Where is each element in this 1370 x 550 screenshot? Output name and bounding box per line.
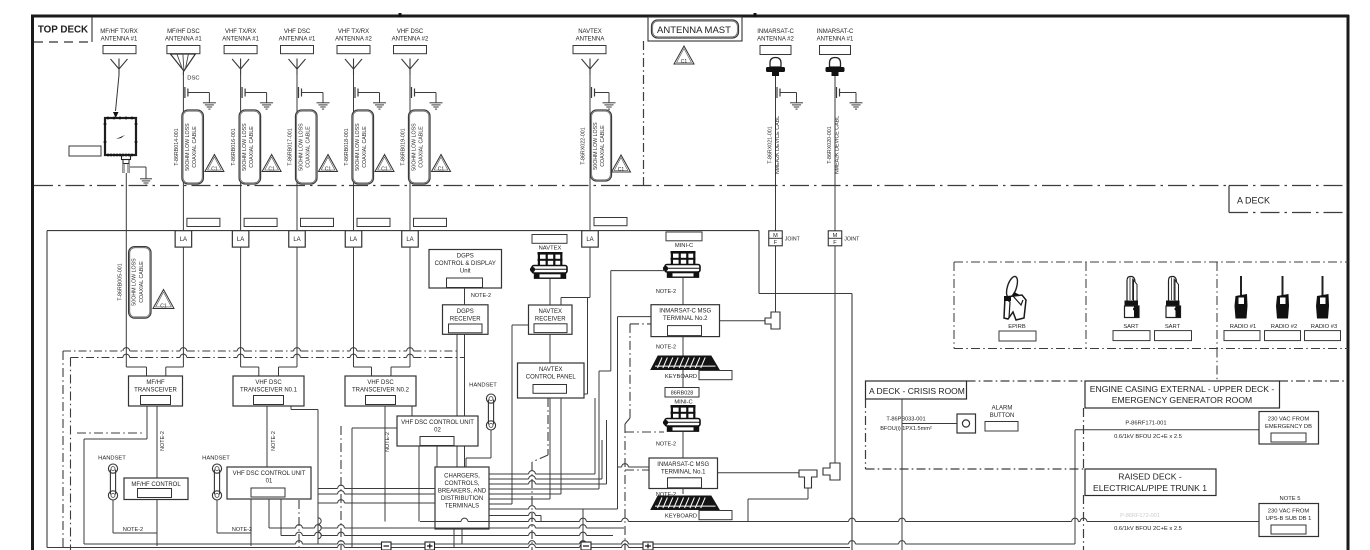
svg-text:BREAKERS, AND: BREAKERS, AND — [438, 489, 487, 495]
svg-text:CHARGERS,: CHARGERS, — [444, 474, 480, 480]
svg-text:DISTRIBUTION: DISTRIBUTION — [441, 496, 483, 502]
ups feeder label — [1114, 526, 1182, 532]
svg-text:C1: C1 — [211, 166, 218, 172]
svg-text:T-86RX022-001: T-86RX022-001 — [581, 127, 587, 164]
HANDSET 3 label — [469, 383, 497, 389]
M/F joint INMARSAT #1 — [828, 231, 860, 246]
svg-text:ANTENNA #1: ANTENNA #1 — [279, 37, 316, 43]
svg-text:VHF DSC CONTROL UNIT: VHF DSC CONTROL UNIT — [233, 471, 306, 477]
wire receiver to panel — [549, 334, 551, 363]
antenna MF/HF DSC funnel — [170, 54, 199, 82]
svg-text:INMARSAT-C MSG: INMARSAT-C MSG — [659, 309, 711, 315]
handset 3 — [486, 394, 495, 430]
MINI-C label 2 — [674, 400, 692, 406]
VHF DSC TRANSCEIVER NO.1 — [233, 376, 304, 406]
coaxial cable label col 5 — [344, 110, 374, 184]
svg-text:VHF DSC: VHF DSC — [367, 380, 394, 386]
svg-text:A DECK - CRISIS ROOM: A DECK - CRISIS ROOM — [869, 386, 965, 396]
deck boundary TOP DECK / A DECK — [34, 185, 1229, 187]
RADIO icon 3 — [1316, 276, 1329, 319]
svg-text:T-86PB033-001: T-86PB033-001 — [886, 417, 925, 423]
NOTE-2 label handset2 — [232, 527, 252, 533]
wire chargers bottom b — [461, 529, 463, 544]
svg-text:VHF TX/RX: VHF TX/RX — [225, 29, 256, 35]
wire terminal1 down — [682, 488, 684, 494]
svg-text:LA: LA — [180, 237, 187, 243]
coaxial cable label col 1 — [117, 247, 151, 319]
INMARSAT-C MSG TERMINAL No.2 — [651, 305, 720, 337]
NAVTEX receiver device icon — [530, 252, 567, 278]
wire mini-c 1 down — [682, 278, 684, 305]
svg-text:KEYBOARD: KEYBOARD — [665, 374, 697, 380]
warning triangle C1 col 2 — [205, 154, 224, 172]
lightning arrestor LA col 6 — [402, 231, 419, 248]
svg-text:RADIO #1: RADIO #1 — [1230, 324, 1256, 330]
wire col2 to MF/HF transceiver — [166, 348, 184, 376]
wire antenna col 2 down — [182, 72, 184, 231]
svg-text:T-86RB016-001: T-86RB016-001 — [231, 128, 237, 165]
svg-text:COAXIAL CABLE: COAXIAL CABLE — [192, 126, 198, 168]
emergency feeder label — [1114, 421, 1182, 441]
feedthrough capacitor + ground col 2 — [185, 87, 216, 109]
NAVTEX CONTROL PANEL box — [518, 363, 585, 398]
feedthrough capacitor + ground INMARSAT #2 — [777, 87, 803, 109]
VHF DSC TRANSCEIVER NO.2 — [345, 376, 416, 406]
label rect above bus NAVTEX — [594, 218, 627, 226]
svg-text:ENGINE CASING EXTERNAL - UPPER: ENGINE CASING EXTERNAL - UPPER DECK - — [1090, 384, 1275, 394]
svg-text:MF/HF TX/RX: MF/HF TX/RX — [100, 29, 138, 35]
svg-text:TERMINALS: TERMINALS — [445, 504, 479, 510]
svg-text:MF/HF CONTROL: MF/HF CONTROL — [131, 482, 181, 488]
TOP DECK label — [34, 17, 92, 42]
svg-text:INMARSAT-C: INMARSAT-C — [817, 29, 854, 35]
bottom bus 1 / ups feeder — [420, 518, 1259, 521]
svg-text:F: F — [774, 240, 778, 246]
ATU side label rect — [69, 146, 101, 156]
svg-text:NOTE-2: NOTE-2 — [232, 527, 252, 533]
A DECK - CRISIS ROOM title box — [866, 381, 967, 399]
alarm cable label — [880, 417, 932, 432]
wire right rail 902 — [901, 399, 903, 550]
MF/HF CONTROL — [124, 478, 188, 500]
svg-text:NAVTEX: NAVTEX — [539, 246, 562, 252]
feedthrough capacitor + ground INMARSAT #1 — [837, 87, 863, 109]
svg-text:50OHM LOW LOSS: 50OHM LOW LOSS — [185, 123, 191, 171]
MINI-C device label rect — [666, 232, 702, 241]
svg-text:C1: C1 — [381, 166, 388, 172]
compartment dash-dot rail E — [532, 398, 548, 550]
wire DGPS receiver down 2 — [464, 334, 466, 528]
svg-text:INMARSAT-C: INMARSAT-C — [757, 29, 794, 35]
svg-text:TRANSCEIVER N0.1: TRANSCEIVER N0.1 — [240, 388, 298, 394]
svg-text:ANTENNA #2: ANTENNA #2 — [335, 37, 372, 43]
ALARM BUTTON label — [990, 406, 1015, 420]
svg-text:P-86RF171-001: P-86RF171-001 — [1125, 421, 1166, 427]
antenna label placeholder rect col 3 — [224, 46, 257, 54]
junction box bottom 4 — [643, 542, 653, 550]
svg-text:T-86RX021-001: T-86RX021-001 — [768, 126, 774, 163]
wire chargers bottom a — [453, 529, 455, 548]
antenna label placeholder rect col 4 — [281, 46, 314, 54]
wire antenna col 5 down — [353, 75, 355, 231]
svg-text:NOTE-2: NOTE-2 — [123, 527, 143, 533]
compartment dash-dot stub terminal1 — [625, 469, 649, 471]
svg-text:50OHM LOW LOSS: 50OHM LOW LOSS — [132, 258, 138, 306]
handset 1 — [108, 464, 117, 500]
svg-text:DGPS: DGPS — [457, 309, 474, 315]
svg-text:NAVTEX: NAVTEX — [539, 367, 563, 373]
warning triangle C1 col 4 — [319, 154, 338, 172]
svg-text:0.6/1kV BFOU 2C+E x 2.5: 0.6/1kV BFOU 2C+E x 2.5 — [1114, 434, 1182, 440]
antenna label placeholder rect INMARSAT #1 — [820, 46, 851, 55]
wire terminal2 left — [618, 317, 652, 509]
svg-text:NOTE-2: NOTE-2 — [385, 432, 391, 452]
svg-text:ANTENNA #2: ANTENNA #2 — [757, 37, 794, 43]
compartment boundary bus 1 — [63, 348, 457, 351]
svg-text:M: M — [773, 233, 778, 239]
equipment room top line — [47, 231, 852, 550]
antenna label VHF DSC ANTENNA #2 — [392, 29, 429, 43]
NOTE-2 terminal1 a — [656, 442, 676, 448]
lightning arrestor LA col 3 — [232, 231, 249, 248]
RADIO label rects — [1224, 331, 1341, 341]
wire LA down col 5 — [353, 247, 355, 348]
svg-text:NOTE-2: NOTE-2 — [656, 345, 676, 351]
svg-text:RADIO #2: RADIO #2 — [1271, 324, 1297, 330]
EPIRB label — [1008, 324, 1026, 330]
svg-text:LA: LA — [237, 237, 244, 243]
svg-text:HANDSET: HANDSET — [469, 383, 497, 389]
wire handset3 to chargers — [466, 430, 491, 467]
svg-text:UPS-B SUB DB 1: UPS-B SUB DB 1 — [1266, 516, 1312, 522]
svg-text:C1: C1 — [160, 303, 167, 309]
plug connector INMARSAT #1 — [823, 463, 840, 480]
M/F joint INMARSAT #2 — [769, 231, 801, 246]
svg-text:ANTENNA MAST: ANTENNA MAST — [657, 25, 731, 36]
svg-text:M: M — [833, 233, 838, 239]
compartment boundary bus 2 — [71, 354, 465, 357]
wire mini-c 2 down — [682, 432, 684, 458]
wire emergency db — [1075, 430, 1259, 544]
keyboard icon 1 — [651, 356, 719, 370]
wire NAVTEX antenna down — [589, 75, 591, 231]
SART label 2 — [1165, 324, 1181, 330]
svg-text:NOTE-2: NOTE-2 — [656, 442, 676, 448]
bottom bus 4 (emergency feeder) — [84, 541, 1075, 544]
svg-text:50OHM LOW LOSS: 50OHM LOW LOSS — [355, 123, 361, 171]
wire col3 to VHF transceiver1 — [241, 348, 259, 376]
chargers left stubs — [318, 485, 435, 503]
feedthrough capacitor + ground col 3 — [242, 87, 273, 109]
wire terminal No.2 to plug — [720, 320, 766, 322]
ANTENNA MAST label box — [648, 17, 742, 41]
antenna label placeholder rect col 2 — [167, 46, 200, 54]
antenna label placeholder rect col 5 — [337, 46, 370, 54]
keyboard icon 2 — [651, 496, 719, 510]
svg-text:NMEA2K DEVICE CABL: NMEA2K DEVICE CABL — [775, 116, 781, 174]
KEYBOARD label 1 — [665, 371, 732, 381]
INMARSAT-C MSG TERMINAL No.1 — [649, 458, 718, 489]
svg-text:Unit: Unit — [460, 269, 471, 275]
SART label rect 2 — [1155, 331, 1192, 341]
chargers fan wire 1 — [489, 398, 595, 474]
junction box bottom 2 — [425, 542, 435, 550]
feedthrough capacitor + ground col 6 — [412, 87, 443, 109]
CHARGERS CONTROLS BREAKERS box — [435, 467, 489, 529]
wire col6 to VHF transceiver2 — [391, 348, 410, 376]
antenna dome INMARSAT #1 — [826, 58, 845, 77]
antenna dome INMARSAT #2 — [766, 58, 785, 77]
wire transceiver1 left loop — [84, 406, 147, 544]
svg-text:EPIRB: EPIRB — [1008, 324, 1026, 330]
coaxial cable label NAVTEX — [581, 110, 612, 181]
wire fan vertical 583 — [582, 509, 584, 550]
svg-text:86RB028: 86RB028 — [671, 391, 693, 397]
vertical hop bumps 318 — [318, 518, 321, 539]
feedthrough capacitor + ground col 5 — [355, 87, 386, 109]
svg-text:T-86RB014-001: T-86RB014-001 — [174, 128, 180, 165]
svg-text:COAXIAL CABLE: COAXIAL CABLE — [306, 126, 312, 168]
svg-text:RECEIVER: RECEIVER — [535, 317, 566, 323]
svg-text:VHF TX/RX: VHF TX/RX — [338, 29, 369, 35]
wire terminal2 to keyboard — [682, 337, 684, 356]
wire T connector join bus — [0, 0, 1, 1]
svg-text:230 VAC FROM: 230 VAC FROM — [1268, 417, 1310, 423]
svg-text:INMARSAT-C MSG: INMARSAT-C MSG — [657, 462, 709, 468]
wire receiver left rail — [489, 325, 529, 504]
svg-text:P-86RF172-001: P-86RF172-001 — [1120, 513, 1160, 519]
label rect above bus col 4 — [301, 218, 334, 226]
compartment dash-dot rail F — [625, 324, 651, 550]
wire LA down col 6 — [409, 247, 411, 348]
svg-text:T-86RB017-001: T-86RB017-001 — [288, 128, 294, 165]
svg-text:ELECTRICAL/PIPE TRUNK 1: ELECTRICAL/PIPE TRUNK 1 — [1093, 483, 1207, 493]
svg-text:50OHM LOW LOSS: 50OHM LOW LOSS — [593, 122, 599, 170]
antenna tuner unit (ATU) — [104, 117, 138, 157]
SART label rect 1 — [1113, 331, 1150, 341]
svg-text:MF/HF DSC: MF/HF DSC — [167, 29, 200, 35]
NOTE 5 label — [1280, 496, 1301, 502]
230 VAC FROM UPS-B SUB DB 1 box — [1259, 504, 1319, 537]
antenna whip NAVTEX — [582, 59, 599, 76]
compartment dash-dot rail D — [298, 500, 300, 550]
wire INMARSAT #2 down — [775, 76, 777, 231]
NOTE-2 rotated vhf control 01 — [271, 431, 277, 451]
ATU ground — [130, 167, 152, 185]
MINI-C device icon 1 — [663, 251, 700, 277]
svg-text:NMEA2K DEVICE CABL: NMEA2K DEVICE CABL — [835, 116, 841, 174]
wire INMARSAT #1 down — [834, 76, 836, 231]
wire mini-c left — [489, 271, 665, 489]
wire INMARSAT #1 joint down — [834, 246, 836, 463]
wire DGPS display to receiver — [464, 288, 466, 305]
antenna label INMARSAT-C ANTENNA #2 — [757, 29, 794, 43]
A DECK label box — [1229, 186, 1348, 213]
svg-text:EMERGENCY DB: EMERGENCY DB — [1265, 424, 1312, 430]
NAVTEX device label rect — [532, 235, 567, 244]
SART icon 2 — [1166, 277, 1181, 318]
survival craft equipment dash-dot box — [954, 262, 1348, 381]
antenna whip col 4 — [289, 59, 306, 76]
svg-text:TERMINAL No.2: TERMINAL No.2 — [663, 316, 708, 322]
lightning arrestor LA col 5 — [345, 231, 362, 248]
svg-text:T-86RB005-001: T-86RB005-001 — [117, 263, 123, 300]
230 VAC FROM EMERGENCY DB box — [1259, 412, 1319, 445]
svg-text:ANTENNA #1: ANTENNA #1 — [101, 37, 138, 43]
chargers fan wire 5 — [489, 512, 541, 521]
wire antenna col 3 down — [240, 75, 242, 231]
T connector terminal No.1 — [799, 470, 817, 488]
engine room dash-dot boundary — [1083, 408, 1085, 550]
warning triangle C1 col 6 — [432, 154, 451, 172]
svg-text:TRANSCEIVER: TRANSCEIVER — [134, 388, 177, 394]
antenna label placeholder rect col 6 — [394, 46, 427, 54]
wire panel down b — [489, 398, 561, 494]
NOTE-2 label DGPS — [471, 293, 491, 299]
NOTE-2 label handset1 — [123, 527, 143, 533]
svg-text:RECEIVER: RECEIVER — [450, 316, 481, 322]
NOTE-2 terminal1 b — [656, 492, 676, 498]
wire to alarm button — [902, 423, 957, 425]
wire antenna col 6 down — [409, 75, 411, 231]
RAISED DECK title box — [1085, 469, 1216, 496]
svg-text:VHF DSC: VHF DSC — [255, 380, 282, 386]
svg-text:VHF DSC: VHF DSC — [284, 29, 311, 35]
svg-text:SART: SART — [1123, 324, 1139, 330]
lightning arrestor LA col 2 — [175, 231, 192, 248]
feedthrough capacitor + ground NAVTEX — [592, 87, 616, 109]
chargers fan wire 3 — [489, 420, 607, 484]
svg-text:F: F — [833, 240, 837, 246]
wire transceiver1 to control — [156, 406, 158, 478]
wire antenna col 4 down — [296, 75, 298, 231]
device cable label INMARSAT #2 — [768, 116, 782, 174]
svg-text:EMERGENCY GENERATOR ROOM: EMERGENCY GENERATOR ROOM — [1112, 395, 1252, 405]
svg-text:NAVTEX: NAVTEX — [578, 29, 602, 35]
svg-text:NOTE-2: NOTE-2 — [160, 431, 166, 451]
wire transceiver2 right loop — [291, 406, 318, 544]
svg-text:COAXIAL CABLE: COAXIAL CABLE — [362, 126, 368, 168]
NOTE-2 terminal2 b — [656, 345, 676, 351]
svg-text:01: 01 — [266, 479, 273, 485]
label rect above bus col 3 — [244, 218, 277, 226]
bottom bus 2 — [269, 525, 624, 528]
warning triangle C1 col 1 — [153, 290, 174, 310]
svg-text:T-86RX020-001: T-86RX020-001 — [827, 126, 833, 163]
antenna label placeholder rect NAVTEX — [573, 46, 606, 54]
wire transceiver3 to control 02 — [411, 406, 413, 416]
svg-text:VHF DSC CONTROL UNIT: VHF DSC CONTROL UNIT — [401, 420, 474, 426]
label rect above bus col 5 — [357, 218, 390, 226]
lightning arrestor LA NAVTEX — [582, 231, 599, 248]
device cable label INMARSAT #1 — [827, 116, 841, 174]
wire panel down a — [489, 398, 550, 499]
NOTE-2 terminal2 a — [656, 289, 676, 295]
svg-text:MINI-C: MINI-C — [674, 400, 692, 406]
ATU bottom connector — [122, 155, 131, 173]
antenna label NAVTEX ANTENNA — [576, 29, 605, 43]
antenna label MF/HF DSC ANTENNA #1 — [165, 29, 202, 43]
compartment dash-dot rail C — [340, 426, 342, 550]
svg-text:RAISED DECK -: RAISED DECK - — [1118, 472, 1182, 482]
svg-text:50OHM LOW LOSS: 50OHM LOW LOSS — [299, 123, 305, 171]
svg-text:A DECK: A DECK — [1237, 196, 1270, 206]
wire col4 to VHF transceiver1 — [279, 348, 298, 376]
svg-text:BUTTON: BUTTON — [990, 413, 1015, 419]
svg-text:NOTE-2: NOTE-2 — [656, 289, 676, 295]
svg-text:ANTENNA #1: ANTENNA #1 — [817, 37, 854, 43]
wire control02 left loop — [352, 428, 397, 548]
svg-text:C1: C1 — [268, 166, 275, 172]
wire keyboard1 to 86RB028 — [682, 370, 684, 388]
svg-text:LA: LA — [406, 237, 413, 243]
wire INMARSAT #2 joint to plug — [775, 246, 777, 312]
EPIRB label rect — [999, 331, 1036, 341]
MF/HF TRANSCEIVER — [129, 376, 183, 406]
svg-text:COAXIAL CABLE: COAXIAL CABLE — [600, 125, 606, 167]
svg-text:LA: LA — [293, 237, 300, 243]
svg-text:CONTROL PANEL: CONTROL PANEL — [526, 375, 577, 381]
compartment dash-dot rail A — [62, 351, 64, 550]
svg-text:ANTENNA #2: ANTENNA #2 — [392, 37, 429, 43]
wire LA navtex to receiver — [561, 247, 590, 305]
svg-text:JOINT: JOINT — [844, 236, 860, 242]
svg-text:DSC: DSC — [187, 76, 199, 82]
RADIO icon 2 — [1276, 276, 1289, 319]
svg-text:50OHM LOW LOSS: 50OHM LOW LOSS — [242, 123, 248, 171]
svg-text:TOP DECK: TOP DECK — [38, 25, 88, 36]
svg-text:JOINT: JOINT — [785, 236, 801, 242]
svg-text:CONTROL & DISPLAY: CONTROL & DISPLAY — [435, 261, 496, 267]
svg-text:TRANSCEIVER N0.2: TRANSCEIVER N0.2 — [352, 388, 410, 394]
antenna label MF/HF TX/RX ANTENNA #1 — [100, 29, 138, 43]
antenna label INMARSAT-C ANTENNA #1 — [817, 29, 854, 43]
mast boundary dash-dot line — [643, 41, 645, 186]
label rect above bus col 2 — [187, 218, 220, 226]
bottom bus 3 — [281, 532, 613, 535]
NAVTEX RECEIVER box — [529, 305, 573, 334]
MINI-C device icon 2 — [663, 405, 700, 431]
86RB028 label box — [665, 388, 699, 398]
warning triangle C1 col 3 — [262, 154, 281, 172]
bottom bus 5 — [47, 544, 850, 547]
svg-text:NOTE-2: NOTE-2 — [271, 431, 277, 451]
svg-text:NOTE-2: NOTE-2 — [471, 293, 491, 299]
VHF DSC CONTROL UNIT 01 — [227, 467, 311, 499]
chargers fan wire 4 — [489, 506, 618, 509]
svg-text:C1: C1 — [681, 59, 688, 65]
svg-text:COAXIAL CABLE: COAXIAL CABLE — [139, 261, 145, 303]
svg-text:HANDSET: HANDSET — [98, 456, 126, 462]
wire DGPS receiver down 1 — [456, 334, 458, 521]
wire control01 down b — [280, 499, 282, 536]
svg-text:ANTENNA: ANTENNA — [576, 37, 605, 43]
wire col5 to VHF transceiver2 — [354, 348, 372, 376]
wire transceiver3 down left — [384, 406, 386, 522]
wire terminal No.1 to T connector — [717, 472, 799, 474]
svg-text:MINI-C: MINI-C — [675, 243, 693, 249]
warning triangle C1 col 5 — [375, 154, 394, 172]
HANDSET 1 label — [98, 456, 126, 462]
lightning arrestor LA col 4 — [289, 231, 306, 248]
wire ATU down (coax col 1) — [126, 173, 146, 376]
feedthrough capacitor + ground col 4 — [299, 87, 330, 109]
NOTE-2 rotated mf/hf control — [160, 431, 166, 451]
svg-text:ANTENNA #1: ANTENNA #1 — [165, 37, 202, 43]
svg-text:C1: C1 — [325, 166, 332, 172]
equipment room left edge — [46, 231, 48, 548]
RADIO labels — [1230, 324, 1337, 330]
